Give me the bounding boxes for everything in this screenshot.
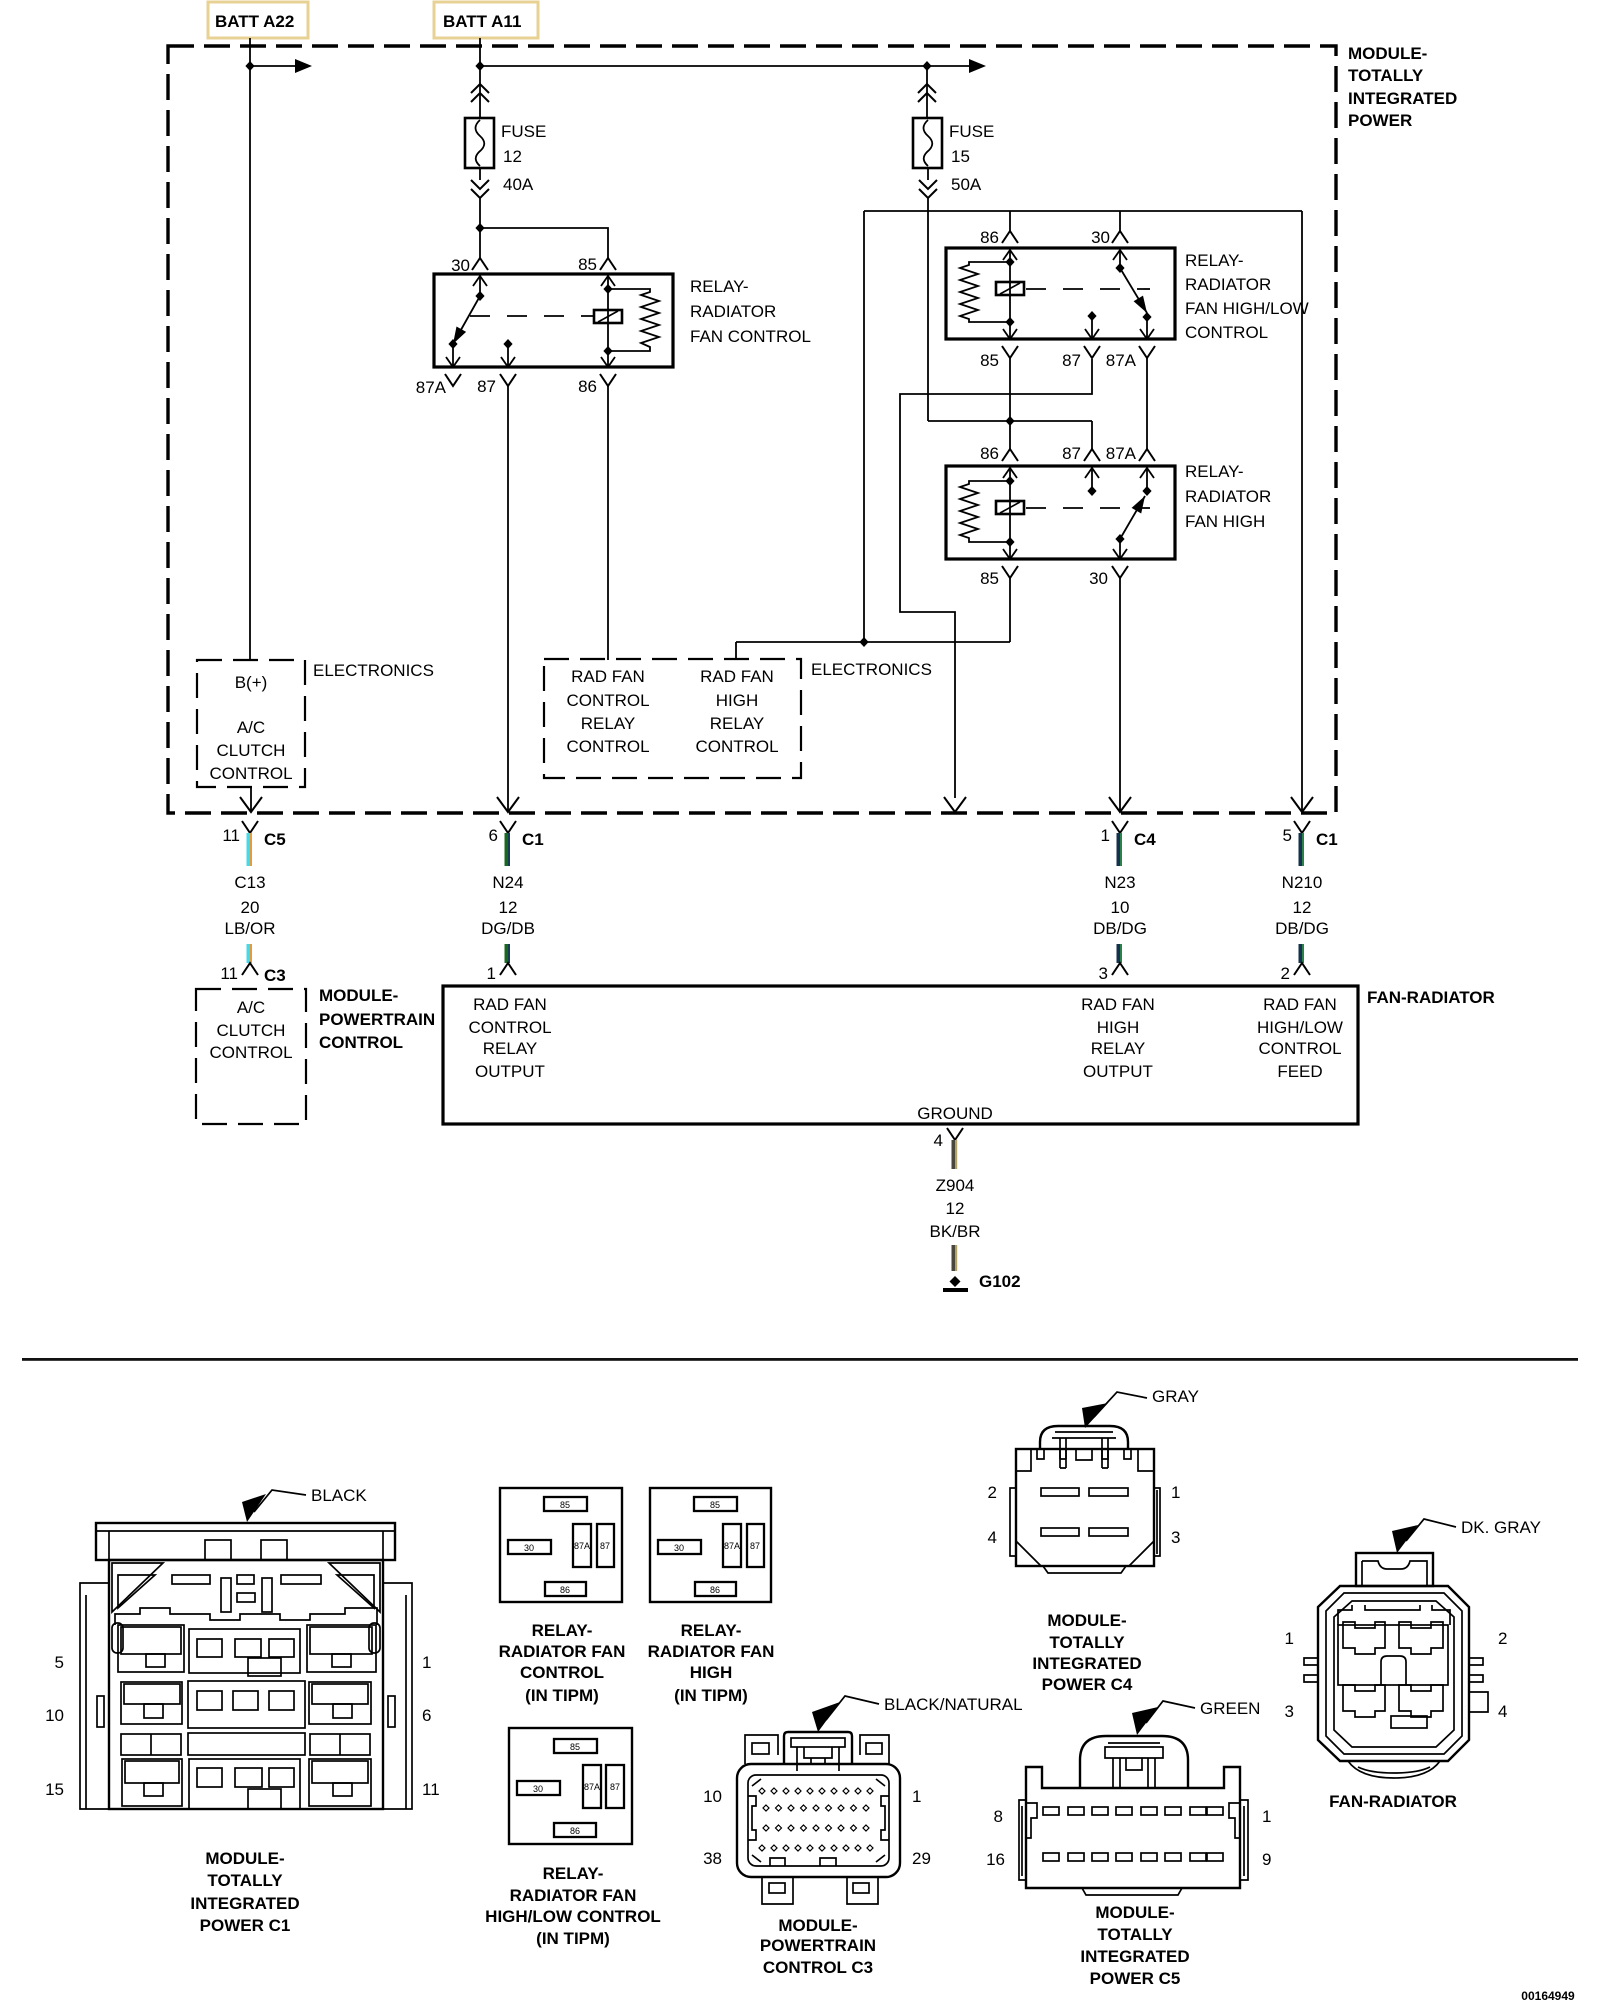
svg-text:C1: C1 bbox=[1316, 830, 1338, 849]
connector pin 11 C3 bbox=[242, 963, 258, 975]
wire BATT A11 feed down bbox=[479, 38, 481, 86]
svg-text:00164949: 00164949 bbox=[1521, 1989, 1575, 2000]
svg-text:CLUTCH: CLUTCH bbox=[217, 1021, 286, 1040]
connector chevrons above fuse 15 bbox=[926, 66, 928, 118]
svg-text:85: 85 bbox=[710, 1500, 720, 1510]
svg-text:RAD FAN: RAD FAN bbox=[473, 995, 547, 1014]
svg-text:HIGH: HIGH bbox=[716, 691, 759, 710]
svg-text:3: 3 bbox=[1285, 1702, 1294, 1721]
svg-text:RELAY-: RELAY- bbox=[532, 1621, 593, 1640]
separator line bbox=[22, 1358, 1578, 1361]
svg-text:BLACK: BLACK bbox=[311, 1486, 367, 1505]
connector C5 body bbox=[1026, 1767, 1240, 1888]
wire Z904 lower bbox=[952, 1245, 958, 1271]
module exit arrows at boundary bbox=[497, 797, 519, 812]
connector FAN pin3 shape bbox=[1343, 1685, 1385, 1717]
svg-text:CONTROL: CONTROL bbox=[209, 764, 292, 783]
connector FAN center key bbox=[1381, 1656, 1406, 1685]
svg-text:MODULE-: MODULE- bbox=[1348, 44, 1427, 63]
svg-text:RELAY: RELAY bbox=[483, 1039, 538, 1058]
connector FAN top tab bbox=[1356, 1553, 1433, 1586]
relay U3 coil dashed link bbox=[1026, 507, 1150, 509]
svg-text:INTEGRATED: INTEGRATED bbox=[1348, 89, 1457, 108]
svg-text:87A: 87A bbox=[584, 1782, 600, 1792]
connector C5 side keys bbox=[1026, 1803, 1037, 1838]
connector C1 right wing bbox=[383, 1583, 412, 1809]
wire relay3 87 up to feed line bbox=[1091, 421, 1093, 449]
svg-text:15: 15 bbox=[951, 147, 970, 166]
svg-text:RELAY-: RELAY- bbox=[1185, 462, 1244, 481]
svg-text:85: 85 bbox=[570, 1742, 580, 1752]
svg-text:POWERTRAIN: POWERTRAIN bbox=[760, 1936, 876, 1955]
svg-text:MODULE-: MODULE- bbox=[205, 1849, 284, 1868]
connector C4 side rails bbox=[1010, 1488, 1016, 1556]
svg-text:CONTROL: CONTROL bbox=[566, 691, 649, 710]
connector C3 body bbox=[737, 1764, 900, 1877]
svg-text:BATT A22: BATT A22 bbox=[215, 12, 294, 31]
wire B+ box exit arrow bbox=[250, 787, 252, 811]
connector C1 top inner details bbox=[112, 1563, 163, 1612]
svg-text:HIGH: HIGH bbox=[690, 1663, 733, 1682]
connector pin 11 C5 bbox=[242, 821, 258, 833]
wire relay3 pin85 down to junction line bbox=[1009, 578, 1011, 642]
svg-text:FAN CONTROL: FAN CONTROL bbox=[690, 327, 811, 346]
svg-text:RADIATOR: RADIATOR bbox=[1185, 275, 1271, 294]
connector C1 row2 clusters bbox=[121, 1682, 182, 1724]
relay U2 coil resistor bbox=[960, 262, 1010, 322]
svg-text:HIGH/LOW: HIGH/LOW bbox=[1257, 1018, 1343, 1037]
svg-text:16: 16 bbox=[986, 1850, 1005, 1869]
wire BATT A22 feed down bbox=[249, 38, 251, 660]
connector C3 corner notches bbox=[752, 1779, 885, 1862]
connector C3 top ears bbox=[745, 1735, 778, 1764]
svg-text:30: 30 bbox=[1089, 569, 1108, 588]
svg-text:CONTROL: CONTROL bbox=[1258, 1039, 1341, 1058]
svg-text:20: 20 bbox=[241, 898, 260, 917]
svg-text:2: 2 bbox=[1498, 1629, 1507, 1648]
svg-text:BK/BR: BK/BR bbox=[929, 1222, 980, 1241]
svg-text:40A: 40A bbox=[503, 175, 534, 194]
svg-text:RELAY-: RELAY- bbox=[1185, 251, 1244, 270]
svg-text:C3: C3 bbox=[264, 966, 286, 985]
svg-text:TOTALLY: TOTALLY bbox=[1049, 1633, 1125, 1652]
svg-text:1: 1 bbox=[487, 964, 496, 983]
svg-text:FAN-RADIATOR: FAN-RADIATOR bbox=[1367, 988, 1495, 1007]
module PCM dashed box A/C clutch control bbox=[196, 989, 306, 1124]
wire N24 12 DG/DB upper bbox=[505, 833, 511, 866]
svg-text:FUSE: FUSE bbox=[949, 122, 994, 141]
connector C3 bottom keys bbox=[770, 1858, 836, 1866]
svg-text:MODULE-: MODULE- bbox=[778, 1916, 857, 1935]
connector FAN pin4 shape bbox=[1399, 1685, 1443, 1717]
svg-text:RAD FAN: RAD FAN bbox=[700, 667, 774, 686]
svg-text:12: 12 bbox=[499, 898, 518, 917]
wire rail left drop bbox=[863, 211, 865, 642]
svg-text:85: 85 bbox=[980, 569, 999, 588]
junction at A11 bbox=[475, 61, 484, 71]
svg-text:FAN HIGH/LOW: FAN HIGH/LOW bbox=[1185, 299, 1309, 318]
connector C5 pin slots row1 bbox=[1043, 1807, 1059, 1815]
svg-text:CLUTCH: CLUTCH bbox=[217, 741, 286, 760]
fuse 15 50A bbox=[913, 118, 942, 168]
svg-text:87A: 87A bbox=[1106, 444, 1137, 463]
svg-text:RELAY-: RELAY- bbox=[690, 277, 749, 296]
svg-text:CONTROL: CONTROL bbox=[468, 1018, 551, 1037]
relay U2 coil box bbox=[996, 282, 1024, 295]
svg-text:RAD FAN: RAD FAN bbox=[1081, 995, 1155, 1014]
svg-text:87A: 87A bbox=[574, 1541, 590, 1551]
connector C1 body bbox=[109, 1560, 383, 1809]
svg-text:MODULE-: MODULE- bbox=[1095, 1903, 1174, 1922]
wire Z904 12 BK/BR upper bbox=[952, 1140, 958, 1169]
svg-text:TOTALLY: TOTALLY bbox=[1097, 1925, 1173, 1944]
svg-text:ELECTRONICS: ELECTRONICS bbox=[811, 660, 932, 679]
svg-text:Z904: Z904 bbox=[936, 1176, 975, 1195]
wire relay2 pin87 to module exit bbox=[900, 359, 1092, 798]
relay U2 coil dashed link bbox=[1026, 288, 1150, 290]
svg-text:30: 30 bbox=[533, 1784, 543, 1794]
svg-text:85: 85 bbox=[980, 351, 999, 370]
relay U1 RELAY-RADIATOR FAN CONTROL bbox=[416, 255, 811, 397]
svg-text:CONTROL: CONTROL bbox=[319, 1033, 403, 1052]
wire B+ rail horizontal bbox=[864, 210, 1302, 212]
svg-text:1: 1 bbox=[912, 1787, 921, 1806]
svg-text:10: 10 bbox=[45, 1706, 64, 1725]
connector C4 top ears bbox=[1016, 1449, 1153, 1471]
connector C3 top latch bbox=[784, 1732, 852, 1764]
svg-text:TOTALLY: TOTALLY bbox=[207, 1871, 283, 1890]
svg-text:87: 87 bbox=[750, 1541, 760, 1551]
wire branch to relay1 pin85 bbox=[480, 228, 608, 258]
svg-text:FAN-RADIATOR: FAN-RADIATOR bbox=[1329, 1792, 1457, 1811]
wire fuse15 feed joins 85/86 and relay3 87 bbox=[928, 420, 1092, 422]
svg-text:6: 6 bbox=[422, 1706, 431, 1725]
wire fuse12 output down to relay1 bbox=[479, 198, 481, 258]
ground G102 symbol bbox=[950, 1276, 961, 1287]
connector FAN bottom slot bbox=[1391, 1716, 1427, 1728]
svg-text:POWERTRAIN: POWERTRAIN bbox=[319, 1010, 435, 1029]
connector C1 cap bbox=[96, 1523, 395, 1560]
svg-text:C5: C5 bbox=[264, 830, 286, 849]
connector C1 castellated strip bbox=[115, 1608, 377, 1625]
svg-text:87: 87 bbox=[1062, 351, 1081, 370]
svg-text:30: 30 bbox=[674, 1543, 684, 1553]
connector pin 2 fan bbox=[1294, 963, 1310, 975]
relay U3 RELAY-RADIATOR FAN HIGH bbox=[946, 444, 1271, 588]
svg-text:C13: C13 bbox=[234, 873, 265, 892]
connector pin 1 C4 bbox=[1112, 821, 1128, 833]
svg-text:MODULE-: MODULE- bbox=[319, 986, 398, 1005]
svg-text:MODULE-: MODULE- bbox=[1047, 1611, 1126, 1630]
svg-text:RADIATOR FAN: RADIATOR FAN bbox=[510, 1886, 637, 1905]
wire C13 20 LB/OR upper bbox=[247, 833, 253, 866]
svg-text:12: 12 bbox=[503, 147, 522, 166]
connector TIPM C4 drawing bbox=[988, 1387, 1199, 1694]
svg-text:A/C: A/C bbox=[237, 718, 265, 737]
connector FAN side tabs bbox=[1304, 1658, 1318, 1682]
svg-text:87: 87 bbox=[1062, 444, 1081, 463]
svg-text:TOTALLY: TOTALLY bbox=[1348, 66, 1424, 85]
connector pin 4 ground bbox=[947, 1128, 963, 1140]
connector pin 1 fan bbox=[500, 963, 516, 975]
svg-text:11: 11 bbox=[222, 826, 240, 845]
relay U1 coil box bbox=[594, 310, 622, 323]
connector C4 dome latch bbox=[1052, 1432, 1116, 1438]
relay U1 coil dashed link bbox=[470, 315, 594, 317]
svg-text:87: 87 bbox=[600, 1541, 610, 1551]
wire C13 lower bbox=[247, 944, 253, 963]
electronics block B+/AC clutch control bbox=[197, 660, 305, 787]
wire relay1 pin86 to electronics bbox=[607, 386, 609, 660]
svg-text:RADIATOR: RADIATOR bbox=[690, 302, 776, 321]
svg-text:12: 12 bbox=[1293, 898, 1312, 917]
svg-text:CONTROL: CONTROL bbox=[520, 1663, 604, 1682]
svg-text:RELAY: RELAY bbox=[581, 714, 636, 733]
svg-text:DG/DB: DG/DB bbox=[481, 919, 535, 938]
svg-text:GROUND: GROUND bbox=[917, 1104, 993, 1123]
relay socket RELAY-RADIATOR FAN HIGH/LOW CONTROL bbox=[485, 1728, 661, 1948]
svg-text:85: 85 bbox=[578, 255, 597, 274]
svg-text:RAD FAN: RAD FAN bbox=[571, 667, 645, 686]
svg-text:CONTROL: CONTROL bbox=[695, 737, 778, 756]
wire N210 lower bbox=[1299, 944, 1305, 963]
svg-text:ELECTRONICS: ELECTRONICS bbox=[313, 661, 434, 680]
svg-text:DB/DG: DB/DG bbox=[1275, 919, 1329, 938]
svg-text:POWER: POWER bbox=[1348, 111, 1412, 130]
relay U3 coil box bbox=[996, 501, 1024, 514]
wire N23 10 DB/DG upper bbox=[1117, 833, 1123, 866]
svg-text:12: 12 bbox=[946, 1199, 965, 1218]
svg-text:1: 1 bbox=[422, 1653, 431, 1672]
svg-text:RELAY-: RELAY- bbox=[543, 1864, 604, 1883]
connector chevrons above fuse 12 bbox=[479, 84, 481, 118]
svg-text:86: 86 bbox=[570, 1826, 580, 1836]
svg-text:6: 6 bbox=[489, 826, 498, 845]
connector C4 dome bbox=[1040, 1426, 1128, 1449]
connector FAN inner pin cavity bbox=[1338, 1605, 1450, 1625]
svg-text:OUTPUT: OUTPUT bbox=[1083, 1062, 1153, 1081]
connector C3 bottom feet bbox=[762, 1877, 793, 1904]
connector PCM C3 drawing bbox=[703, 1695, 1022, 1977]
relay U3 coil resistor bbox=[960, 481, 1010, 542]
wire relay1 pin87 output to C1 pin6 bbox=[507, 386, 509, 811]
svg-text:10: 10 bbox=[1111, 898, 1130, 917]
connector FAN outer shell bbox=[1318, 1586, 1469, 1761]
junction on A22 wire bbox=[245, 61, 254, 71]
wire relay2 pin87A to relay3 pin87A bbox=[1146, 358, 1148, 449]
connector C4 pin slots bbox=[1041, 1488, 1079, 1496]
svg-text:3: 3 bbox=[1171, 1528, 1180, 1547]
wire arrow A22 bbox=[250, 65, 296, 67]
module TIPM boundary dashed box bbox=[168, 46, 1336, 813]
svg-text:29: 29 bbox=[912, 1849, 931, 1868]
svg-text:RADIATOR: RADIATOR bbox=[1185, 487, 1271, 506]
svg-text:11: 11 bbox=[422, 1780, 440, 1799]
svg-text:1: 1 bbox=[1171, 1483, 1180, 1502]
connector pin 5 C1 bbox=[1294, 821, 1310, 833]
connector pin 6 C1 bbox=[500, 821, 516, 833]
svg-text:DB/DG: DB/DG bbox=[1093, 919, 1147, 938]
svg-text:INTEGRATED: INTEGRATED bbox=[190, 1894, 299, 1913]
svg-text:POWER C4: POWER C4 bbox=[1042, 1675, 1133, 1694]
connector chevrons below fuse 12 bbox=[479, 168, 481, 180]
connector TIPM C1 drawing bbox=[45, 1486, 440, 1935]
svg-text:86: 86 bbox=[980, 444, 999, 463]
fuse 12 40A bbox=[465, 118, 494, 168]
svg-text:5: 5 bbox=[55, 1653, 64, 1672]
svg-text:85: 85 bbox=[560, 1500, 570, 1510]
svg-text:10: 10 bbox=[703, 1787, 722, 1806]
svg-text:HIGH/LOW CONTROL: HIGH/LOW CONTROL bbox=[485, 1907, 661, 1926]
svg-text:1: 1 bbox=[1101, 826, 1110, 845]
svg-text:POWER C1: POWER C1 bbox=[200, 1916, 291, 1935]
svg-text:RADIATOR FAN: RADIATOR FAN bbox=[648, 1642, 775, 1661]
connector FAN bottom seal bump bbox=[1348, 1761, 1440, 1778]
wire rail right drop to C1 pin5 bbox=[1301, 211, 1303, 811]
wire A11 to fuse15 branch bbox=[480, 65, 927, 67]
svg-text:30: 30 bbox=[451, 256, 470, 275]
svg-text:N24: N24 bbox=[492, 873, 523, 892]
wire fuse15 output down through rail to relay feed bbox=[927, 198, 929, 421]
connector TIPM C5 drawing bbox=[986, 1699, 1271, 1988]
svg-text:BLACK/NATURAL: BLACK/NATURAL bbox=[884, 1695, 1023, 1714]
node BATT A11 label box bbox=[434, 2, 538, 38]
svg-text:GREEN: GREEN bbox=[1200, 1699, 1260, 1718]
svg-text:RELAY: RELAY bbox=[1091, 1039, 1146, 1058]
svg-text:4: 4 bbox=[988, 1528, 997, 1547]
svg-text:86: 86 bbox=[578, 377, 597, 396]
svg-text:30: 30 bbox=[524, 1543, 534, 1553]
connector C1 left wing bbox=[80, 1583, 109, 1809]
connector C4 body bbox=[1016, 1449, 1154, 1566]
connector C5 dome latch bbox=[1105, 1743, 1163, 1758]
wire rail to relay2 pin30 bbox=[1119, 211, 1121, 231]
wire N24 lower bbox=[505, 944, 511, 963]
connector C3 pin diamonds bbox=[759, 1788, 873, 1851]
svg-text:1: 1 bbox=[1262, 1807, 1271, 1826]
connector C5 dome bbox=[1080, 1736, 1188, 1788]
connector C3 side keys bbox=[748, 1796, 756, 1840]
connector C4 bottom chamfers and foot bbox=[1016, 1541, 1154, 1566]
svg-text:(IN TIPM): (IN TIPM) bbox=[674, 1686, 748, 1705]
wire horizontal to rad fan high relay control bbox=[736, 642, 1010, 660]
svg-text:50A: 50A bbox=[951, 175, 982, 194]
svg-text:86: 86 bbox=[980, 228, 999, 247]
svg-text:OUTPUT: OUTPUT bbox=[475, 1062, 545, 1081]
node BATT A22 label box bbox=[208, 2, 308, 38]
svg-text:(IN TIPM): (IN TIPM) bbox=[525, 1686, 599, 1705]
connector FAN pin2 shape bbox=[1399, 1622, 1443, 1654]
svg-text:INTEGRATED: INTEGRATED bbox=[1032, 1654, 1141, 1673]
wire N23 lower bbox=[1117, 944, 1123, 963]
relay U1 coil resistor bbox=[608, 289, 659, 351]
svg-text:86: 86 bbox=[560, 1585, 570, 1595]
svg-text:C1: C1 bbox=[522, 830, 544, 849]
connector C1 row3 clusters bbox=[121, 1734, 181, 1755]
svg-text:HIGH: HIGH bbox=[1097, 1018, 1140, 1037]
connector FAN-RADIATOR drawing bbox=[1285, 1518, 1541, 1811]
svg-text:5: 5 bbox=[1283, 826, 1292, 845]
svg-text:RAD FAN: RAD FAN bbox=[1263, 995, 1337, 1014]
connector C5 pin slots row2 bbox=[1043, 1853, 1059, 1861]
relay socket RELAY-RADIATOR FAN CONTROL bbox=[499, 1488, 626, 1705]
connector C5 side tabs bbox=[1019, 1800, 1026, 1880]
svg-text:N23: N23 bbox=[1104, 873, 1135, 892]
svg-text:87A: 87A bbox=[724, 1541, 740, 1551]
svg-text:DK. GRAY: DK. GRAY bbox=[1461, 1518, 1541, 1537]
svg-text:87: 87 bbox=[477, 377, 496, 396]
svg-text:3: 3 bbox=[1099, 964, 1108, 983]
svg-text:11: 11 bbox=[220, 964, 238, 983]
wire relay2 pin85 to relay3 pin86 bbox=[1009, 358, 1011, 449]
svg-text:38: 38 bbox=[703, 1849, 722, 1868]
svg-text:GRAY: GRAY bbox=[1152, 1387, 1199, 1406]
svg-text:30: 30 bbox=[1091, 228, 1110, 247]
relay socket RELAY-RADIATOR FAN HIGH bbox=[648, 1488, 775, 1705]
module FAN-RADIATOR box bbox=[443, 986, 1358, 1124]
svg-text:86: 86 bbox=[710, 1585, 720, 1595]
electronics block rad fan high relay control bbox=[695, 667, 778, 756]
svg-text:G102: G102 bbox=[979, 1272, 1021, 1291]
svg-text:FAN HIGH: FAN HIGH bbox=[1185, 512, 1265, 531]
relay U2 RELAY-RADIATOR FAN HIGH/LOW CONTROL bbox=[946, 228, 1309, 370]
connector FAN inner shell bbox=[1334, 1601, 1454, 1747]
svg-text:BATT A11: BATT A11 bbox=[443, 12, 521, 31]
svg-text:RELAY-: RELAY- bbox=[681, 1621, 742, 1640]
svg-text:RELAY: RELAY bbox=[710, 714, 765, 733]
svg-text:4: 4 bbox=[1498, 1702, 1507, 1721]
connector pin 3 fan bbox=[1112, 963, 1128, 975]
svg-text:2: 2 bbox=[1281, 964, 1290, 983]
svg-text:9: 9 bbox=[1262, 1850, 1271, 1869]
svg-text:LB/OR: LB/OR bbox=[224, 919, 275, 938]
svg-text:C4: C4 bbox=[1134, 830, 1156, 849]
svg-text:N210: N210 bbox=[1282, 873, 1323, 892]
svg-text:POWER C5: POWER C5 bbox=[1090, 1969, 1181, 1988]
svg-text:CONTROL C3: CONTROL C3 bbox=[763, 1958, 873, 1977]
svg-text:FUSE: FUSE bbox=[501, 122, 546, 141]
svg-text:87A: 87A bbox=[1106, 351, 1137, 370]
svg-text:2: 2 bbox=[988, 1483, 997, 1502]
wire N210 12 DB/DG upper bbox=[1299, 833, 1305, 866]
svg-text:RADIATOR FAN: RADIATOR FAN bbox=[499, 1642, 626, 1661]
connector C5 bottom foot bbox=[1082, 1888, 1182, 1895]
electronics block rad fan control relay control bbox=[544, 659, 801, 778]
connector C1 row1 clusters bbox=[118, 1625, 184, 1672]
connector FAN pin1 shape bbox=[1343, 1622, 1385, 1654]
relay U2 switch bbox=[1119, 249, 1121, 268]
connector chevrons below fuse 15 bbox=[927, 168, 929, 180]
svg-text:INTEGRATED: INTEGRATED bbox=[1080, 1947, 1189, 1966]
svg-text:CONTROL: CONTROL bbox=[209, 1043, 292, 1062]
svg-text:B(+): B(+) bbox=[235, 673, 268, 692]
svg-text:CONTROL: CONTROL bbox=[1185, 323, 1268, 342]
svg-text:CONTROL: CONTROL bbox=[566, 737, 649, 756]
svg-text:87A: 87A bbox=[416, 378, 447, 397]
svg-text:FEED: FEED bbox=[1277, 1062, 1322, 1081]
svg-text:A/C: A/C bbox=[237, 998, 265, 1017]
svg-text:8: 8 bbox=[994, 1807, 1003, 1826]
relay U3 pin87 stub bbox=[1091, 467, 1093, 491]
wire rail to relay2 pin86 bbox=[1009, 211, 1011, 231]
svg-text:15: 15 bbox=[45, 1780, 64, 1799]
svg-text:4: 4 bbox=[934, 1131, 943, 1150]
wire relay3 pin30 output to C4 pin1 bbox=[1119, 578, 1121, 811]
connector C4 castellation bbox=[1037, 1449, 1131, 1459]
svg-text:1: 1 bbox=[1285, 1629, 1294, 1648]
svg-text:87: 87 bbox=[610, 1782, 620, 1792]
relay U3 switch from pin30 to 87A bbox=[1146, 467, 1148, 491]
